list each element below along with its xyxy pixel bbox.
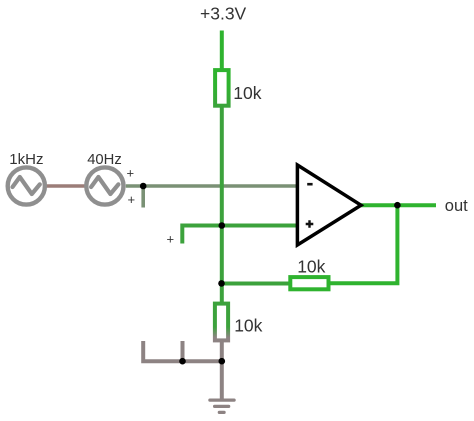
- svg-text:10k: 10k: [233, 83, 261, 103]
- svg-text:+: +: [167, 231, 175, 246]
- svg-text:10k: 10k: [297, 257, 325, 277]
- svg-text:40Hz: 40Hz: [87, 152, 122, 168]
- svg-text:+: +: [127, 166, 135, 181]
- svg-text:10k: 10k: [234, 315, 262, 335]
- svg-text:+3.3V: +3.3V: [200, 4, 247, 24]
- svg-text:+: +: [128, 192, 136, 207]
- svg-text:1kHz: 1kHz: [9, 151, 43, 168]
- svg-text:out: out: [445, 197, 468, 215]
